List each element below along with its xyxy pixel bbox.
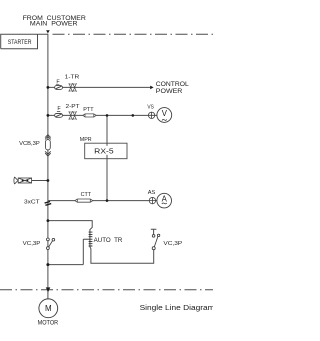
svg-text:MAIN POWER: MAIN POWER [30, 21, 78, 28]
svg-text:RX-5: RX-5 [94, 147, 113, 156]
svg-text:VS: VS [147, 104, 154, 110]
svg-text:CTT: CTT [81, 192, 92, 198]
svg-text:POWER: POWER [156, 88, 183, 95]
svg-text:PTT: PTT [83, 107, 94, 113]
svg-text:A: A [162, 195, 168, 204]
svg-text:MOTOR: MOTOR [38, 320, 59, 327]
svg-text:V: V [162, 109, 168, 118]
svg-text:AUTO TR: AUTO TR [94, 238, 123, 244]
svg-text:VC,3P: VC,3P [23, 241, 41, 247]
svg-text:2-PT: 2-PT [66, 104, 81, 110]
svg-text:M: M [45, 304, 52, 313]
svg-text:VC,3P: VC,3P [163, 241, 182, 247]
svg-text:AS: AS [148, 190, 156, 196]
svg-text:3xCT: 3xCT [24, 200, 40, 206]
svg-text:VCB,3P: VCB,3P [19, 141, 40, 147]
svg-text:MPR: MPR [80, 137, 92, 143]
svg-text:1-TR: 1-TR [65, 74, 80, 80]
svg-text:STARTER: STARTER [8, 39, 32, 46]
svg-text:Single Line Diagram: Single Line Diagram [140, 303, 213, 312]
